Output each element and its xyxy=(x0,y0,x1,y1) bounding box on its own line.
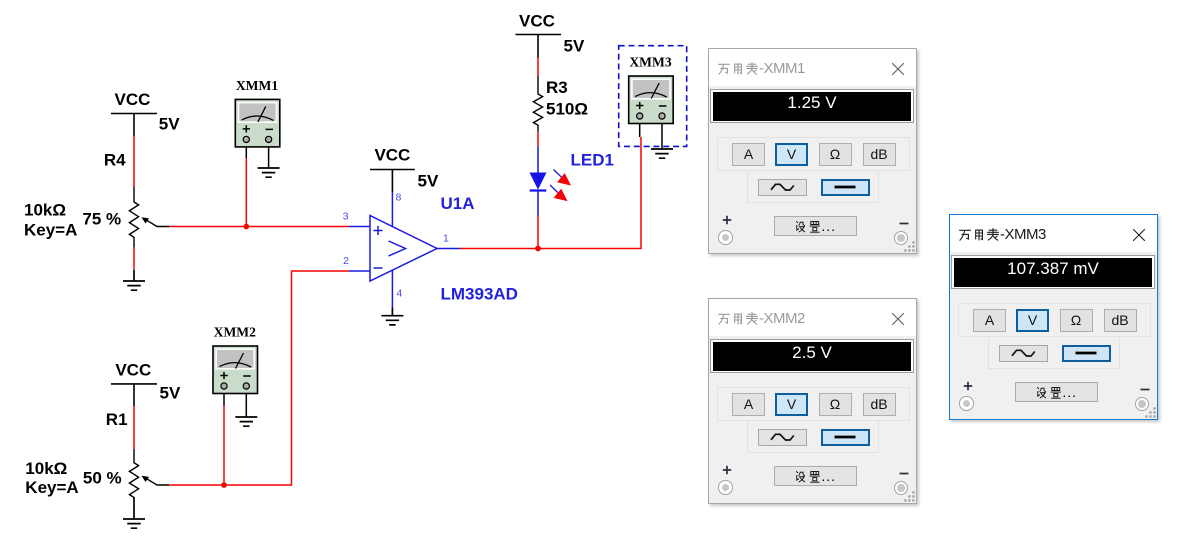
svg-text:1: 1 xyxy=(443,233,449,245)
svg-text:R1: R1 xyxy=(106,410,128,429)
svg-text:Key=A: Key=A xyxy=(25,478,78,497)
ground (XMM1 minus) xyxy=(258,168,280,177)
potentiometer R1 xyxy=(129,449,169,497)
multimeter panel window XMM2 xyxy=(708,298,917,504)
wire XMM1 plus probe down to node xyxy=(245,158,247,227)
wire net op-amp output to XMM3 xyxy=(460,137,641,249)
svg-text:8: 8 xyxy=(396,192,402,204)
svg-text:Key=A: Key=A xyxy=(24,220,77,239)
multimeter icon XMM1 xyxy=(235,99,279,168)
ground (XMM3 minus) xyxy=(651,149,673,158)
svg-text:VCC: VCC xyxy=(115,361,151,380)
wire R4 bottom to ground xyxy=(133,248,135,270)
ground (XMM2 minus) xyxy=(235,417,257,426)
wire LED1 cathode to output node xyxy=(537,216,539,249)
svg-text:R4: R4 xyxy=(104,151,126,170)
junction node at XMM2 tap xyxy=(221,482,227,488)
svg-text:U1A: U1A xyxy=(441,194,475,213)
multimeter icon XMM2 xyxy=(213,346,258,417)
junction node at XMM1 tap xyxy=(243,224,249,230)
svg-text:XMM2: XMM2 xyxy=(214,325,256,340)
svg-text:3: 3 xyxy=(343,210,349,222)
CJK glyph defs xyxy=(0,0,1,1)
potentiometer R4 xyxy=(129,187,169,248)
svg-text:2: 2 xyxy=(343,255,349,267)
wire XMM2 plus probe down to node xyxy=(223,406,225,485)
svg-text:5V: 5V xyxy=(418,172,439,191)
wire VCC to R3 xyxy=(537,58,539,77)
svg-text:50 %: 50 % xyxy=(83,468,122,487)
svg-text:10kΩ: 10kΩ xyxy=(25,459,67,478)
multimeter panel window XMM1 xyxy=(708,48,917,254)
svg-text:VCC: VCC xyxy=(115,90,151,109)
svg-text:5V: 5V xyxy=(159,115,180,134)
wire net R4 wiper to op-amp pin3 xyxy=(169,226,349,228)
svg-text:R3: R3 xyxy=(546,78,568,97)
ground (op-amp pin 4) xyxy=(381,308,403,325)
resistor R3 xyxy=(533,76,542,132)
power VCC node (R1 branch) xyxy=(111,384,157,406)
svg-text:5V: 5V xyxy=(564,37,585,56)
LED LED1 xyxy=(530,146,571,216)
wire net op-amp pin2 to R1 wiper xyxy=(169,271,349,485)
power VCC node (R3) xyxy=(516,35,562,58)
svg-text:510Ω: 510Ω xyxy=(546,100,588,119)
ground (below R4) xyxy=(123,270,145,291)
svg-text:VCC: VCC xyxy=(519,12,555,31)
junction node at LED output xyxy=(535,246,541,252)
wire VCC to R4 xyxy=(133,136,135,187)
svg-text:LM393AD: LM393AD xyxy=(441,285,518,304)
wire R3 to LED1 xyxy=(537,132,539,147)
ground (below R1) xyxy=(123,497,145,528)
op-amp U1A comparator xyxy=(349,192,460,308)
svg-text:XMM1: XMM1 xyxy=(236,78,278,93)
wire VCC to R1 xyxy=(133,406,135,449)
svg-text:75 %: 75 % xyxy=(82,210,121,229)
svg-text:4: 4 xyxy=(397,288,403,300)
svg-text:5V: 5V xyxy=(160,384,181,403)
selection box around XMM3 xyxy=(619,46,687,147)
power VCC node (R4 branch) xyxy=(111,114,157,137)
svg-text:10kΩ: 10kΩ xyxy=(24,200,66,219)
svg-text:VCC: VCC xyxy=(374,146,410,165)
svg-text:LED1: LED1 xyxy=(571,151,614,170)
multimeter icon XMM3 xyxy=(629,76,674,149)
multimeter panel window XMM3 (active) xyxy=(949,214,1158,420)
power VCC node (op-amp) xyxy=(370,170,415,193)
svg-text:XMM3: XMM3 xyxy=(629,55,671,70)
